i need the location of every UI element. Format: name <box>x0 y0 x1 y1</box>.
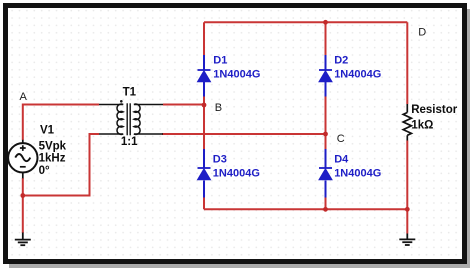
wire: top rail <box>204 21 407 23</box>
svg-text:0°: 0° <box>39 165 50 177</box>
diode D3 <box>198 149 211 198</box>
wire: junction to transformer primary bottom <box>23 134 99 196</box>
T1 reference label <box>123 86 137 98</box>
D2 labels <box>334 55 381 81</box>
svg-text:1N4004G: 1N4004G <box>213 168 260 180</box>
svg-text:D: D <box>418 27 426 39</box>
wire: left column top (rail to D1) <box>203 22 205 55</box>
node B label <box>215 102 222 114</box>
svg-text:T1: T1 <box>123 86 137 98</box>
node A label <box>20 91 28 103</box>
wire: transformer secondary top to node B <box>163 104 204 106</box>
transformer polarity dot <box>120 100 123 103</box>
wire: D4 to bottom rail <box>325 198 327 210</box>
wire: junction to left ground <box>22 196 24 234</box>
svg-text:D4: D4 <box>334 154 349 166</box>
wire: transformer secondary bottom to node C <box>162 133 326 135</box>
svg-text:1kHz: 1kHz <box>39 153 66 165</box>
AC source V1 <box>8 140 37 179</box>
ground (right) <box>399 234 415 246</box>
junction dot V1 bottom node <box>20 193 25 198</box>
node C junction dot <box>323 132 328 137</box>
diode D1 <box>198 55 211 97</box>
junction dot top rail / D2 column <box>323 20 328 25</box>
wire: D3 to bottom rail <box>203 198 205 210</box>
svg-text:1:1: 1:1 <box>121 136 138 148</box>
wire: V1 bottom to junction <box>22 178 24 196</box>
wire: resistor bottom to rail and right ground <box>406 141 408 234</box>
junction dot bottom rail / D4 column <box>323 207 328 212</box>
wire: node D down to resistor <box>406 22 408 104</box>
svg-text:D2: D2 <box>334 55 348 67</box>
svg-text:5Vpk: 5Vpk <box>39 140 67 152</box>
junction dot bottom rail / ground column <box>405 207 410 212</box>
svg-text:C: C <box>337 133 345 145</box>
wire: D1 to node B to D3 <box>203 97 205 150</box>
wire: middle column top (rail to D2) <box>325 22 327 55</box>
wire: bottom rail <box>204 208 407 210</box>
svg-text:D1: D1 <box>213 55 227 67</box>
node C label <box>337 133 345 145</box>
svg-text:1N4004G: 1N4004G <box>334 168 381 180</box>
wire: D2 to node C to D4 <box>325 97 327 150</box>
D4 labels <box>334 154 381 180</box>
D3 labels <box>213 154 260 180</box>
D1 labels <box>213 55 260 81</box>
svg-text:1kΩ: 1kΩ <box>411 120 433 132</box>
node B junction dot <box>202 103 207 108</box>
node D label <box>418 27 426 39</box>
diode D4 <box>319 149 332 198</box>
resistor labels <box>411 104 458 132</box>
wire A: V1 top to transformer primary top <box>23 105 99 141</box>
T1 ratio label 1:1 <box>121 136 138 148</box>
svg-text:1N4004G: 1N4004G <box>213 69 260 81</box>
diode D2 <box>319 55 332 97</box>
ground (left) <box>15 233 31 246</box>
V1 value labels <box>39 125 67 177</box>
svg-text:V1: V1 <box>40 125 55 137</box>
svg-text:1N4004G: 1N4004G <box>334 69 381 81</box>
svg-text:B: B <box>215 102 222 114</box>
transformer T1 <box>99 103 163 135</box>
svg-text:A: A <box>20 91 28 103</box>
resistor R (Resistor 1k) <box>403 104 411 141</box>
svg-text:Resistor: Resistor <box>411 104 458 116</box>
svg-text:D3: D3 <box>213 154 227 166</box>
